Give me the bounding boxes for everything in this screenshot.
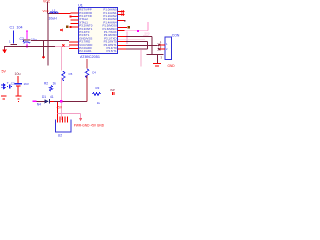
svg-text:P3.5/T1: P3.5/T1: [106, 49, 117, 53]
wire short vertical to ground arrow: [43, 41, 45, 57]
svg-text:U2: U2: [58, 133, 62, 137]
power arrow pink/red down: [79, 118, 82, 121]
svg-text:10uH: 10uH: [49, 17, 58, 21]
svg-text:C5: C5: [69, 72, 73, 76]
connector J1 body: [165, 37, 172, 60]
diode red stub: [50, 100, 54, 102]
svg-text:C4: C4: [92, 71, 96, 75]
svg-text:5V0: 5V0: [145, 31, 150, 35]
faint pink vertical: [140, 50, 142, 66]
svg-text:N4: N4: [37, 102, 41, 106]
power port VCC label (clipped at top): [43, 0, 51, 3]
svg-text:1k: 1k: [53, 82, 57, 86]
svg-text:CON: CON: [172, 33, 180, 37]
red vertical to header pin1: [57, 102, 59, 116]
svg-text:D1: D1: [42, 95, 46, 99]
svg-text:GND: GND: [168, 64, 176, 68]
svg-text:C3: C3: [11, 81, 15, 85]
svg-text:41: 41: [50, 95, 54, 99]
power ground triangle: [2, 49, 7, 53]
junction square brown left: [66, 25, 69, 28]
blue crystal bar: [9, 84, 10, 88]
U1 right pins: [118, 12, 127, 49]
wire ground rail maroon: [4, 46, 55, 48]
pink vertical net from rail: [60, 47, 62, 71]
svg-text:5V: 5V: [2, 69, 7, 73]
wire C2 to U1 pin: [31, 40, 69, 42]
power port arrow +5V above C2: [26, 30, 28, 32]
wire net C to connector pin1: [126, 44, 158, 46]
svg-text:ISP: ISP: [110, 88, 115, 92]
wire magenta drop: [126, 32, 128, 45]
wire down to bottom rail: [86, 76, 88, 102]
ground bars red: [153, 63, 161, 64]
svg-text:T: T: [7, 81, 9, 85]
connector pin1: [160, 44, 165, 46]
junction C2-rail: [26, 46, 28, 48]
capacitor C3 top lead: [17, 76, 19, 83]
wire VCC vertical drop: [47, 2, 49, 14]
svg-text:R3: R3: [96, 86, 100, 90]
wire net D joins net B: [126, 48, 148, 50]
capacitor C2 curved plate: [24, 42, 31, 43]
ground symbol under C3: [16, 96, 22, 97]
capacitor C1 top lead: [13, 31, 15, 44]
capacitor C2 top plate: [23, 39, 31, 40]
capacitor C5 arcs: [62, 71, 65, 81]
no-connect X marks right: [122, 10, 124, 15]
pink vertical continues: [60, 78, 62, 121]
faint pink stub 2: [143, 35, 149, 37]
svg-text:10u: 10u: [15, 72, 21, 76]
svg-text:L1: L1: [52, 9, 56, 13]
header J2 body: [56, 120, 72, 133]
header pins: [57, 116, 67, 122]
capacitor C4 arcs on vertical: [85, 69, 88, 78]
svg-text:VCC: VCC: [43, 9, 50, 13]
wire ground rail pink: [55, 46, 70, 48]
svg-text:R2: R2: [44, 82, 48, 86]
ground symbol far left: [1, 96, 7, 97]
faint pink stub right of U1: [118, 38, 145, 40]
diode D1 body: [45, 99, 49, 103]
junction square brown right: [127, 26, 130, 29]
svg-text:PWR-GND +5V GND: PWR-GND +5V GND: [74, 123, 105, 127]
U1 interior pin names right column: [102, 8, 117, 54]
junction dot magenta on rail: [60, 100, 62, 102]
red mark small: [112, 92, 113, 95]
junction magenta: [137, 30, 139, 32]
svg-text:1k: 1k: [97, 101, 101, 105]
svg-text:16V: 16V: [24, 82, 29, 86]
wire bottom rail left: [37, 100, 45, 102]
pin end dot: [124, 20, 126, 22]
wire C2 bottom lead: [26, 43, 28, 46]
ground arrow power port: [42, 56, 46, 59]
capacitor C3 lower plate: [16, 85, 21, 86]
svg-text:VCC: VCC: [43, 0, 51, 3]
svg-text:C1: C1: [10, 25, 15, 29]
blue arrows left edge: [1, 84, 5, 86]
U1 interior pin names left column: [79, 8, 92, 54]
inductor L1 arcs on wire: [50, 12, 58, 14]
wire bottom rail left magenta end: [33, 100, 37, 102]
capacitor C1 plate: [11, 44, 18, 45]
resistor R2 zigzag vertical: [49, 86, 52, 92]
capacitor C2 plus sign: [23, 40, 25, 42]
no-connect X marks left: [60, 16, 71, 47]
U1 left pins: [69, 13, 79, 48]
wire down from U1: [86, 59, 88, 69]
resistor R3 zigzag horizontal: [93, 93, 101, 96]
svg-text:P2.1/AD1: P2.1/AD1: [79, 49, 92, 53]
wire long vertical from VCC corner down: [47, 13, 49, 65]
connector pin2: [160, 48, 165, 50]
wire C2 top lead: [26, 31, 28, 38]
X mark connector pin1: [158, 44, 161, 47]
IC U1 body: [78, 7, 117, 53]
svg-text:104: 104: [17, 25, 23, 29]
capacitor C3 blue plate: [15, 83, 23, 85]
wire net A to ground stem: [126, 37, 164, 63]
wire magenta P1 net: [125, 22, 149, 31]
wire bottom rail right: [54, 100, 87, 102]
svg-text:AT89C2051: AT89C2051: [80, 55, 100, 59]
X mark connector pin2: [158, 48, 161, 51]
capacitor C3 bottom lead: [17, 86, 19, 95]
wire net B short L: [126, 42, 148, 49]
svg-text:10u: 10u: [31, 38, 37, 42]
connector inner marks: [166, 42, 168, 51]
pink wire to power arrow: [58, 113, 81, 118]
wire VCC horizontal to U1 pin: [48, 12, 59, 14]
